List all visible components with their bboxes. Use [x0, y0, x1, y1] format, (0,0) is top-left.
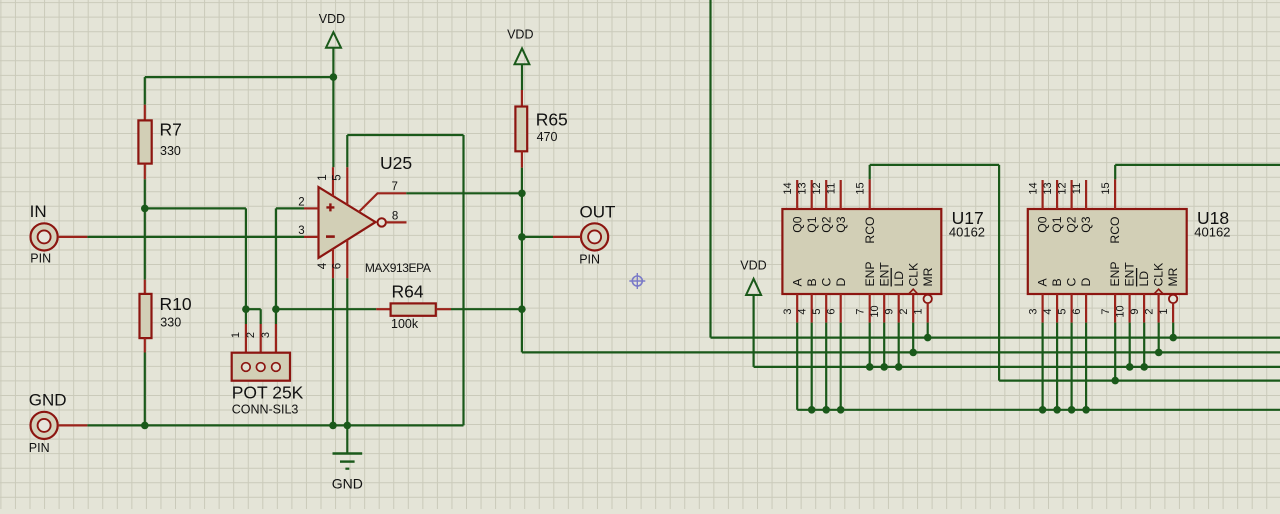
- svg-text:4: 4: [796, 308, 808, 314]
- node U18 LD junction: [1140, 363, 1148, 371]
- svg-text:100k: 100k: [391, 317, 419, 331]
- node U18 A junction: [1039, 406, 1047, 414]
- svg-text:R10: R10: [160, 294, 192, 314]
- svg-text:A: A: [1036, 278, 1050, 287]
- svg-text:POT 25K: POT 25K: [232, 383, 304, 403]
- svg-text:C: C: [1065, 278, 1079, 287]
- wire U18 D to data bus: [1085, 323, 1087, 410]
- wire VDD down to U25 pin 1: [332, 77, 334, 167]
- node pin6/ground junction: [344, 422, 352, 430]
- wire U17 LD to enable bus: [898, 323, 900, 367]
- wire U25 pin 6 to ground: [346, 278, 348, 425]
- wire CLK bus (line 2): [522, 351, 1280, 353]
- pin 15 RCO of U18: [1100, 179, 1122, 243]
- svg-text:U25: U25: [380, 153, 412, 173]
- node POT wiper / R64 junction: [272, 305, 280, 313]
- wire U17 MR to reset bus: [927, 323, 929, 338]
- svg-text:40162: 40162: [949, 224, 985, 239]
- pin 1 MR of U18: [1158, 267, 1180, 322]
- svg-text:15: 15: [854, 182, 866, 194]
- svg-text:CLK: CLK: [1152, 263, 1166, 287]
- wire IN to U25 pin 3: [87, 236, 304, 238]
- wire OUT branch: [522, 236, 553, 238]
- svg-text:PIN: PIN: [29, 441, 50, 455]
- pin 4 B of U18: [1042, 278, 1064, 322]
- svg-text:CONN-SIL3: CONN-SIL3: [232, 403, 299, 417]
- wire ground rail: [87, 424, 463, 426]
- wire POT pin2 jog: [246, 308, 261, 310]
- pin 1 of U25: [332, 167, 334, 196]
- wire U18 RCO out: [1115, 165, 1280, 180]
- node U18 ENP junction: [1111, 377, 1119, 385]
- svg-text:PIN: PIN: [579, 252, 600, 266]
- wire enable bus (line 3): [754, 366, 1280, 368]
- svg-text:12: 12: [811, 182, 823, 194]
- svg-text:C: C: [819, 278, 833, 287]
- wire U17 B to data bus: [811, 323, 813, 410]
- wire U17 C to data bus: [825, 323, 827, 410]
- svg-text:6: 6: [1071, 308, 1083, 314]
- wire U18 C to data bus: [1070, 323, 1072, 410]
- resistor R65: [515, 90, 527, 352]
- wire U17 RCO to U18 ENP (line 4): [870, 165, 1280, 381]
- svg-text:2: 2: [1143, 308, 1155, 314]
- svg-text:R7: R7: [160, 120, 182, 140]
- svg-text:RCO: RCO: [1108, 217, 1122, 244]
- pin 5 C of U18: [1056, 278, 1078, 323]
- svg-text:Q0: Q0: [790, 216, 804, 232]
- IC U17 40162 body: [782, 209, 941, 294]
- svg-text:330: 330: [160, 144, 181, 158]
- pin 1 MR of U17: [912, 267, 934, 322]
- wire U18 LD to enable bus: [1143, 323, 1145, 367]
- svg-text:11: 11: [1071, 183, 1083, 194]
- pin 13 Q1 of U17: [796, 180, 818, 233]
- svg-text:GND: GND: [332, 476, 363, 492]
- svg-text:9: 9: [1129, 308, 1141, 314]
- pin 13 Q1 of U18: [1042, 180, 1064, 233]
- wire U18 ENT to enable bus: [1129, 323, 1131, 367]
- svg-text:CLK: CLK: [906, 263, 920, 287]
- wire VDD top rail to R7: [145, 76, 334, 78]
- svg-text:IN: IN: [30, 202, 47, 221]
- svg-text:OUT: OUT: [580, 203, 616, 222]
- svg-text:MR: MR: [921, 267, 935, 286]
- svg-text:Q2: Q2: [1065, 216, 1079, 232]
- svg-text:1: 1: [230, 332, 242, 338]
- svg-text:3: 3: [1027, 308, 1039, 314]
- svg-text:LD: LD: [1137, 271, 1151, 287]
- svg-text:330: 330: [160, 316, 181, 330]
- svg-text:B: B: [1050, 278, 1064, 286]
- node U17 ENP junction: [866, 363, 874, 371]
- svg-text:40162: 40162: [1194, 224, 1230, 239]
- resistor R64: [276, 303, 522, 315]
- node U17 C junction: [822, 406, 830, 414]
- wire U25 pin 5 loop over to ground: [347, 135, 463, 425]
- pin 6 of U25: [346, 240, 348, 278]
- pin 7 ENP of U18: [1100, 261, 1122, 322]
- resistor R10: [140, 208, 152, 425]
- svg-text:Q1: Q1: [1050, 216, 1064, 232]
- node pin7/R65 junction: [518, 190, 526, 198]
- node U18 ENT junction: [1126, 363, 1134, 371]
- svg-text:6: 6: [332, 263, 344, 269]
- svg-text:Q3: Q3: [1079, 216, 1093, 232]
- wire U18 A to data bus: [1041, 323, 1043, 410]
- power VDD symbol 2: [507, 28, 533, 90]
- pin 5 of U25: [346, 167, 348, 205]
- svg-text:D: D: [834, 278, 848, 287]
- svg-text:3: 3: [298, 225, 304, 237]
- pin 12 Q2 of U18: [1056, 180, 1078, 233]
- svg-text:13: 13: [1042, 182, 1054, 194]
- node R10/ground junction: [141, 422, 149, 430]
- node U17 LD junction: [895, 363, 903, 371]
- pin 7 of U25: [359, 181, 406, 212]
- svg-text:2: 2: [898, 308, 910, 314]
- svg-text:VDD: VDD: [507, 28, 533, 42]
- ground symbol: [332, 425, 363, 491]
- pin 12 Q2 of U17: [811, 180, 833, 233]
- svg-text:470: 470: [537, 130, 558, 144]
- pin 7 ENP of U17: [854, 261, 876, 322]
- wire divider node to POT column: [145, 207, 246, 209]
- pin 14 Q0 of U17: [782, 180, 804, 233]
- svg-text:LD: LD: [892, 271, 906, 287]
- svg-text:15: 15: [1100, 182, 1112, 194]
- pin 2 CLK of U17: [898, 263, 920, 323]
- svg-text:1: 1: [1158, 308, 1170, 314]
- svg-text:1: 1: [912, 308, 924, 314]
- pin 3 of U25: [304, 236, 318, 238]
- pin 10 ENT of U17: [869, 262, 891, 323]
- svg-text:3: 3: [782, 308, 794, 314]
- node U17 MR junction: [924, 334, 932, 342]
- svg-text:GND: GND: [29, 391, 67, 410]
- node U18 MR junction: [1169, 334, 1177, 342]
- svg-text:5: 5: [332, 174, 344, 180]
- wire U18 ENP to RCO line: [1114, 323, 1116, 381]
- pin 9 LD of U17: [883, 268, 905, 323]
- pin 9 LD of U18: [1129, 268, 1151, 323]
- svg-text:4: 4: [1042, 308, 1054, 314]
- svg-text:10: 10: [869, 305, 881, 317]
- svg-text:ENT: ENT: [877, 262, 891, 287]
- svg-text:8: 8: [392, 210, 398, 222]
- node U17 B junction: [808, 406, 816, 414]
- svg-text:B: B: [805, 278, 819, 286]
- pin 10 ENT of U18: [1114, 262, 1136, 323]
- connector POT 25K: [232, 309, 290, 381]
- pin 3 A of U18: [1027, 278, 1049, 323]
- svg-text:9: 9: [883, 308, 895, 314]
- wire U17 ENT to enable bus: [883, 323, 885, 367]
- node U18 D junction: [1082, 406, 1090, 414]
- wire U25 pin 4 to ground: [332, 278, 334, 425]
- svg-text:RCO: RCO: [863, 217, 877, 244]
- node U18 CLK junction: [1155, 349, 1163, 357]
- wire U17 D to data bus: [840, 323, 842, 410]
- svg-text:11: 11: [825, 183, 837, 194]
- IC U18 40162 body: [1028, 209, 1187, 294]
- pin 2 CLK of U18: [1143, 263, 1165, 323]
- svg-text:Q0: Q0: [1036, 216, 1050, 232]
- wire U17 ENP to enable bus: [869, 323, 871, 367]
- svg-text:14: 14: [1027, 182, 1039, 194]
- wire MR bus (line 1): [711, 337, 1280, 339]
- pin 14 Q0 of U18: [1027, 180, 1049, 233]
- node pin4/ground junction: [329, 422, 337, 430]
- svg-text:PIN: PIN: [30, 252, 51, 266]
- svg-text:7: 7: [392, 181, 398, 193]
- svg-text:2: 2: [298, 197, 304, 209]
- pin 11 Q3 of U18: [1071, 180, 1093, 233]
- wire MR bus vertical from top: [709, 0, 711, 338]
- wire U25 pin 2 to POT wiper: [276, 208, 304, 309]
- svg-text:R65: R65: [536, 110, 568, 130]
- pin flag OUT: [553, 203, 615, 267]
- svg-text:ENT: ENT: [1123, 262, 1137, 287]
- svg-text:R64: R64: [392, 282, 424, 302]
- svg-text:VDD: VDD: [319, 12, 345, 26]
- svg-text:13: 13: [796, 182, 808, 194]
- pin flag GND: [29, 391, 88, 455]
- pin 6 D of U17: [825, 278, 847, 323]
- node U18 B junction: [1053, 406, 1061, 414]
- power VDD symbol 1: [319, 12, 345, 77]
- wire U18 MR to reset bus: [1172, 323, 1174, 338]
- svg-text:7: 7: [1100, 308, 1112, 314]
- svg-text:MAX913EPA: MAX913EPA: [365, 261, 431, 275]
- svg-text:7: 7: [854, 308, 866, 314]
- svg-text:1: 1: [317, 174, 329, 180]
- resistor R7: [138, 77, 151, 208]
- svg-text:ENP: ENP: [863, 261, 877, 286]
- svg-text:ENP: ENP: [1108, 261, 1122, 286]
- origin marker: [629, 273, 645, 289]
- svg-text:D: D: [1079, 278, 1093, 287]
- power VDD symbol 3: [740, 259, 766, 367]
- svg-text:VDD: VDD: [740, 259, 766, 273]
- wire U25 pin 7 output: [406, 192, 522, 194]
- svg-text:4: 4: [317, 262, 329, 269]
- svg-text:5: 5: [1056, 308, 1068, 314]
- node U18 C junction: [1068, 406, 1076, 414]
- node R64/R65 junction: [518, 305, 526, 313]
- wire U18 CLK to clock bus: [1158, 323, 1160, 353]
- svg-text:A: A: [790, 278, 804, 287]
- pin 4 B of U17: [796, 278, 818, 322]
- svg-text:12: 12: [1056, 182, 1068, 194]
- svg-text:Q2: Q2: [819, 216, 833, 232]
- svg-text:10: 10: [1114, 305, 1126, 317]
- pin 11 Q3 of U17: [825, 180, 847, 233]
- svg-text:14: 14: [782, 182, 794, 194]
- node U17 ENT junction: [880, 363, 888, 371]
- svg-text:3: 3: [260, 332, 272, 338]
- pin 5 C of U17: [811, 278, 833, 323]
- svg-text:5: 5: [811, 308, 823, 314]
- pin 8 of U25: [386, 210, 407, 222]
- pin flag IN: [30, 202, 88, 265]
- node divider junction: [141, 205, 149, 213]
- pin 15 RCO of U17: [854, 179, 876, 243]
- wire U17 A to data bus: [796, 323, 798, 410]
- svg-text:MR: MR: [1166, 267, 1180, 286]
- node VDD/R7 junction: [330, 73, 338, 81]
- pin 6 D of U18: [1071, 278, 1093, 323]
- node OUT junction: [518, 233, 526, 241]
- svg-text:6: 6: [825, 308, 837, 314]
- wire data bus (line 5): [797, 409, 1280, 411]
- pin 3 A of U17: [782, 278, 804, 323]
- node U17 CLK junction: [909, 349, 917, 357]
- pin 4 of U25: [332, 249, 334, 278]
- svg-text:2: 2: [245, 332, 257, 338]
- node U17 D junction: [837, 406, 845, 414]
- svg-text:Q3: Q3: [834, 216, 848, 232]
- pin 2 of U25: [304, 207, 318, 209]
- wire U17 CLK to clock bus: [912, 323, 914, 353]
- node POT pins 1-2 junction: [242, 305, 250, 313]
- svg-text:Q1: Q1: [805, 216, 819, 232]
- op-amp U25 body: [319, 187, 386, 258]
- wire U18 B to data bus: [1056, 323, 1058, 410]
